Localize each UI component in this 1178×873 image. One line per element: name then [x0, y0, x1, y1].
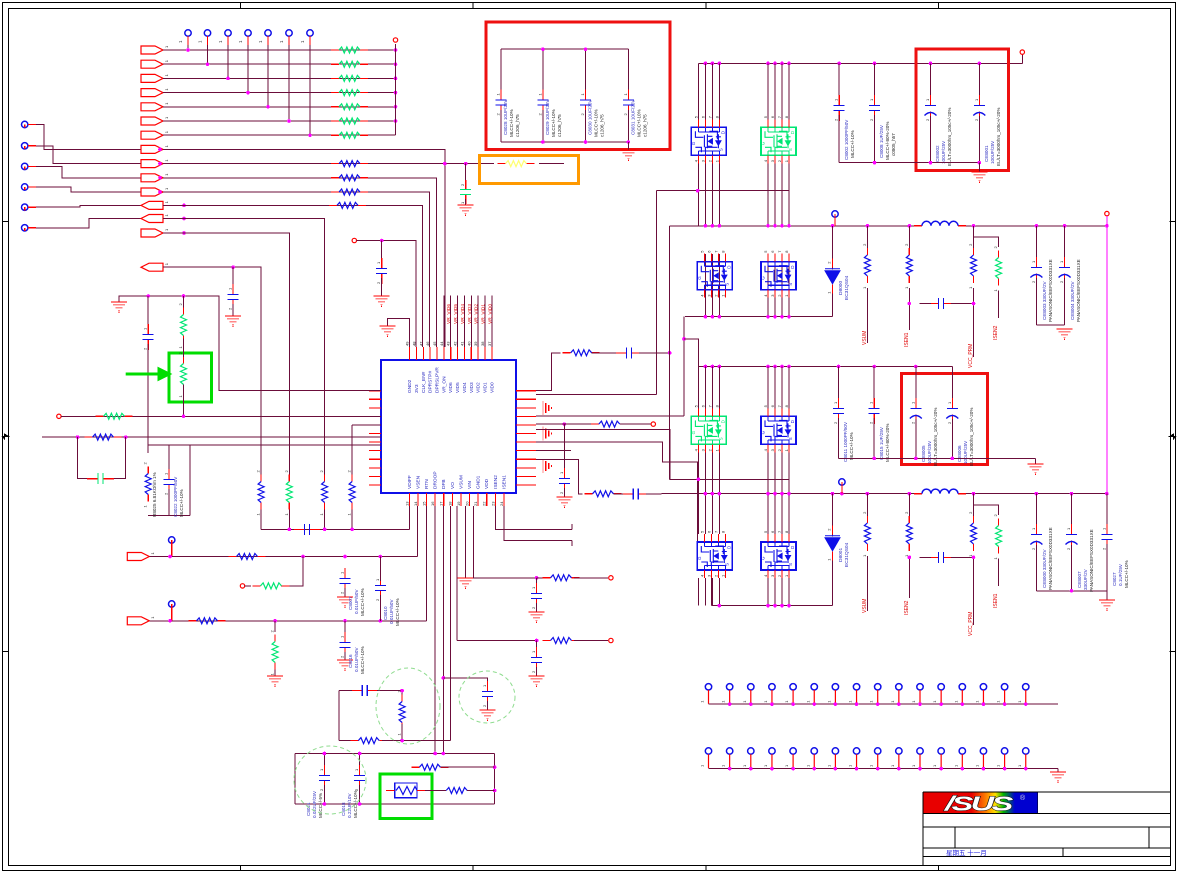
capacitor C ISEN p2 [928, 552, 954, 563]
bus VCORE magenta [1106, 216, 1108, 494]
svg-text:EC31QS04: EC31QS04 [844, 275, 850, 300]
wire C8011 b [838, 418, 840, 458]
junction mlcc bot [873, 161, 933, 165]
ground C8007 [337, 597, 353, 608]
junction RCp1 [668, 351, 672, 355]
capacitor C8016 [340, 632, 351, 658]
terminal J-top3 [218, 30, 231, 45]
svg-text:S: S [788, 283, 793, 286]
ground connector row2 [1050, 772, 1066, 783]
junction capbank top [541, 47, 587, 51]
svg-text:S: S [724, 563, 729, 566]
svg-text:MLCC+/-80%-20%: MLCC+/-80%-20% [885, 122, 890, 160]
stem C8018b [359, 785, 361, 804]
connector pin row2-13 [953, 748, 965, 768]
port arrow row3 [141, 74, 163, 82]
connector pin row1-3 [742, 684, 754, 704]
wire CE8005 a [915, 367, 917, 404]
svg-text:MLCC+/-10%: MLCC+/-10% [551, 109, 556, 137]
terminal left4 [22, 184, 28, 190]
junction row14 [182, 231, 186, 235]
wire C8031 stem b [627, 110, 629, 142]
resistor R row11 [331, 189, 368, 195]
svg-text:C8027: C8027 [1112, 572, 1117, 586]
wire term4 drop [247, 45, 249, 93]
svg-text:DPRSTP#: DPRSTP# [428, 371, 434, 393]
port arrow row12 [141, 201, 163, 209]
svg-text:CE8007: CE8007 [1077, 571, 1082, 588]
svg-text:CE8002: CE8002 [935, 145, 940, 162]
junction row11 [158, 190, 162, 194]
red highlight box 4 [901, 373, 987, 464]
junction p2 outcaps [1070, 589, 1074, 593]
wire capbank gnd stem [627, 142, 629, 150]
resistor R vert x352.1 [347, 470, 356, 516]
ground capbank [620, 150, 636, 161]
wire VO vert [669, 226, 671, 479]
wire ISEN cap right [951, 303, 974, 305]
stem C dashed [486, 701, 488, 710]
wire CE8003 b [1035, 278, 1037, 325]
svg-text:S: S [718, 148, 723, 151]
svg-text:MLCC+/-10%: MLCC+/-10% [850, 130, 855, 158]
capacitor green C row9 [460, 180, 471, 204]
svg-text:C8018: C8018 [341, 802, 346, 816]
resistor R row9 [331, 161, 368, 167]
wire C8002 a [838, 63, 840, 100]
connector pin row2-5 [784, 748, 796, 768]
svg-text:PANASONIC/EEFSX0D331XE: PANASONIC/EEFSX0D331XE [1048, 259, 1053, 322]
wire colB p2 mid [781, 452, 783, 534]
svg-text:VID0: VID0 [489, 382, 495, 393]
wire DFB bus [261, 528, 409, 530]
svg-text:C8011 1000PF/50V: C8011 1000PF/50V [843, 421, 848, 462]
resistor R above fuse [411, 764, 448, 770]
transistor Q high-side A [691, 115, 727, 163]
wire pin13 drop [408, 506, 410, 529]
terminal left6 [22, 225, 28, 231]
wire capbank top [501, 48, 629, 50]
wire C8027 b [1106, 544, 1108, 591]
capacitor C8010 [375, 575, 386, 601]
wire C8008 a [874, 63, 876, 100]
resistor R VSEN [229, 554, 266, 560]
resistor R8025 [143, 462, 152, 508]
wire colA p1 low2 [711, 254, 713, 317]
svg-text:VID1: VID1 [482, 382, 488, 393]
wire phase1 VIN bus [698, 62, 1022, 64]
resistor pack R row7 [331, 132, 368, 138]
wire conn row2 [709, 768, 1058, 770]
wire VSUM1 b [866, 288, 868, 343]
capacitor C8022 [164, 469, 175, 495]
connector pin row1-11 [911, 684, 923, 704]
wire C8011 a [838, 367, 840, 404]
wire VR_ON gnd stem [232, 304, 234, 316]
title block outline [923, 792, 1170, 866]
junction conn row1 [728, 702, 1028, 706]
connector pin row1-10 [890, 684, 902, 704]
resistor R row12 [329, 202, 366, 208]
junction dots row5 [266, 105, 397, 109]
wire phase2 VIN bus [698, 366, 952, 368]
wire colB p1 top [781, 63, 783, 119]
wire pin5R tail [620, 423, 651, 425]
svg-text:C8015 1UF/25V: C8015 1UF/25V [879, 426, 884, 460]
transistor Q2 low-side A [697, 530, 733, 578]
red stub left2 [28, 145, 36, 147]
terminal RTN [169, 601, 175, 607]
svg-text:C8007: C8007 [348, 596, 353, 610]
terminal VCORE1 [832, 211, 838, 217]
wire C8028 stem b [500, 110, 502, 142]
wire pin9R [536, 459, 583, 494]
svg-text:24: 24 [499, 501, 504, 506]
svg-text:C8022 1000PF/50V: C8022 1000PF/50V [173, 476, 178, 517]
capacitor C8015 [869, 398, 880, 424]
wire p2 out bot bus [1036, 590, 1107, 592]
junction row8 [158, 148, 162, 152]
junction lowbus2 [718, 604, 791, 608]
svg-text:VIN: VIN [467, 480, 473, 489]
wire RCp2 mid [614, 493, 626, 495]
wire term7 drop [309, 45, 311, 135]
svg-text:16: 16 [430, 501, 435, 506]
svg-text:46: 46 [425, 341, 430, 346]
red stub left6 [28, 227, 36, 229]
transistor Q low-side B [761, 250, 797, 298]
wire p2 mlcc bot bus [839, 457, 1036, 459]
open terminal VSEN br [240, 584, 244, 588]
svg-text:VR_VID2: VR_VID2 [474, 304, 480, 324]
wire colB p1 mid [788, 163, 790, 226]
svg-text:17: 17 [439, 501, 444, 506]
wire C8028 stem a [500, 49, 502, 95]
svg-text:MLCC+/-80%-20%: MLCC+/-80%-20% [885, 424, 890, 462]
resistor pack R row4 [331, 90, 368, 96]
svg-text:G: G [761, 556, 766, 560]
stem C8007 [344, 588, 346, 597]
junction dots row6 [287, 119, 397, 123]
resistor R right of fuse [438, 788, 475, 794]
wire VCCPRM p1 b [973, 288, 975, 357]
terminal left5 [22, 204, 28, 210]
red stub left3 [28, 165, 36, 167]
resistor R RC2 [543, 638, 580, 644]
junction dots RTN [168, 619, 382, 623]
dashed circle C [459, 671, 515, 723]
capacitor CE8000 [1030, 524, 1042, 550]
svg-text:CE8006: CE8006 [957, 445, 962, 462]
junction VCCPRM cap [972, 302, 976, 306]
U8000 top pin names [407, 367, 495, 393]
svg-text:49: 49 [405, 341, 410, 346]
wire VIN bus to oterm [1021, 54, 1023, 63]
stub RTN [171, 607, 173, 621]
svg-text:GND1: GND1 [476, 475, 482, 489]
port arrow row11 [141, 188, 163, 196]
wire row7 [163, 134, 396, 136]
wire CE8006 a [951, 367, 953, 404]
dashed circle C8021 [294, 746, 366, 814]
wire colA p2 mid [718, 452, 720, 534]
wire VSEN row [149, 556, 417, 558]
wire colB p2 top [788, 367, 790, 409]
wire colB p2 low [788, 578, 790, 606]
capacitor C RC1 [531, 583, 542, 609]
svg-text:DROOP: DROOP [433, 471, 439, 489]
terminal J-top1 [178, 30, 191, 45]
wire ISEN2 p1 b [998, 291, 1000, 319]
resistor R green RTN [270, 630, 279, 676]
resistor R rowA [96, 413, 133, 419]
wire RC2 tail [574, 640, 608, 642]
svg-text:EL/LT=3000hrs_105c+/-20%: EL/LT=3000hrs_105c+/-20% [947, 108, 952, 166]
dashed circle comp [376, 668, 440, 744]
open terminal DPRSTP [352, 238, 356, 242]
svg-text:MLCC+/-10%: MLCC+/-10% [1124, 560, 1129, 588]
wire C8029 stem b [542, 110, 544, 142]
resistor R ISEN2 p1 green [993, 246, 1002, 292]
svg-text:21: 21 [473, 501, 478, 506]
ground p2 VIN caps [1027, 464, 1043, 475]
svg-text:MLCC+/-10%: MLCC+/-10% [849, 432, 854, 460]
wire CE8004 b [1064, 278, 1066, 325]
wire colB p1 mid [781, 163, 783, 226]
terminal J-top4 [238, 30, 251, 45]
wire mlcc bot bus [839, 162, 979, 164]
wire CE8002 b [930, 116, 932, 163]
wire colB p2 low [781, 578, 783, 606]
wire jog to p2 bus [684, 339, 698, 367]
wire row12 [163, 205, 423, 347]
U8000 bottom pins [404, 493, 504, 506]
wire D8001 bot [832, 561, 834, 606]
resistor R ISEN2 p2 [904, 511, 913, 557]
svg-text:MLCC+/-10%: MLCC+/-10% [353, 790, 358, 818]
capacitor C RC p1 [616, 347, 642, 358]
wire colB p2 mid [774, 452, 776, 534]
svg-text:ISEN2: ISEN2 [493, 475, 499, 489]
svg-text:47: 47 [418, 341, 423, 346]
wire D8000 bot [832, 294, 834, 317]
wire colA p1 mid [704, 163, 706, 226]
wire lowbus1 left drop [683, 317, 685, 416]
svg-text:13: 13 [404, 501, 409, 506]
ASUS logo bar [924, 793, 1038, 815]
wire C8022 stem2 [168, 489, 170, 516]
wire pin17 drop [442, 506, 444, 754]
wire pin5R [536, 423, 599, 425]
wire CE8002 a [930, 63, 932, 100]
port arrow RTN [127, 617, 149, 625]
capacitor C RC p2 [623, 488, 649, 499]
capacitor C DPRSTP [376, 258, 387, 284]
svg-text:GND2: GND2 [407, 379, 413, 393]
resistor pack R row2 [331, 61, 368, 67]
wire C-left drop [147, 296, 149, 330]
wire term3 drop [227, 45, 229, 78]
wire ISEN cap left [919, 303, 931, 305]
svg-text:MLCC+/-10%: MLCC+/-10% [594, 109, 599, 137]
stem C8021a [323, 754, 325, 772]
wire colB p1 mid [767, 163, 769, 226]
wire ISEN2 p1 top [974, 237, 999, 247]
junction lowbus1 [704, 315, 791, 319]
wire C8030 stem b [585, 110, 587, 142]
svg-text:VSUM: VSUM [458, 475, 464, 489]
connector pin row1-5 [784, 684, 796, 704]
wire C8031 stem a [627, 49, 629, 95]
wire RCp1 mid [592, 352, 619, 354]
wire RCp2 tail [646, 493, 662, 495]
junction dots row3 [226, 77, 397, 81]
svg-text:CLK_EN#: CLK_EN# [421, 371, 427, 393]
wire C8002 b [838, 115, 840, 163]
stub VCORE2 [841, 485, 843, 493]
port arrow row10 [141, 174, 163, 182]
junction mlcc bot2 [978, 161, 982, 165]
wire colB p2 top [774, 367, 776, 409]
terminal J-top6 [279, 30, 292, 45]
svg-text:S: S [724, 283, 729, 286]
wire ISEN2 cap r [951, 556, 974, 558]
red highlight box 1 [486, 22, 670, 150]
junction conn row2 [728, 767, 1028, 771]
capacitor C8030 [580, 90, 591, 116]
svg-text:c0805_h57: c0805_h57 [891, 133, 896, 156]
port arrow row6 [141, 117, 163, 125]
svg-text:VID6: VID6 [448, 382, 454, 393]
capacitor C8031 [623, 90, 634, 116]
wire colA p1 top [711, 63, 713, 119]
wire VSUM2 [866, 494, 868, 516]
svg-text:0.01UF/50V: 0.01UF/50V [354, 647, 359, 672]
connector pin row1-14 [974, 684, 986, 704]
connector pin row1-2 [721, 684, 733, 704]
svg-text:R8025 6.81KOhm 1%: R8025 6.81KOhm 1% [152, 472, 157, 517]
junction row9 [158, 162, 162, 166]
wire D8001 top [832, 494, 834, 537]
capacitor C ISEN p1 [928, 298, 954, 309]
wire colA p2 low [697, 578, 699, 606]
svg-text:CE8000 330UF/2V: CE8000 330UF/2V [1042, 549, 1047, 588]
resistor R comp [397, 690, 406, 736]
connector pin row2-4 [763, 748, 775, 768]
transistor Q2 high-side A [691, 404, 727, 452]
junction dots row1 [186, 48, 397, 52]
svg-text:/SUS: /SUS [944, 793, 1014, 815]
wire phase1 rail a [670, 225, 914, 227]
svg-text:42: 42 [453, 341, 458, 346]
svg-text:G: G [691, 141, 696, 145]
red stub left4 [28, 186, 36, 188]
resistor R8006 yellow [498, 161, 535, 167]
svg-text:14: 14 [413, 501, 418, 506]
wire colA p2 top [718, 367, 720, 409]
resistor R comp2 [350, 738, 387, 744]
capacitor C8018 [354, 765, 365, 791]
svg-text:VSEN: VSEN [415, 475, 421, 489]
inductor L8001 [914, 489, 966, 494]
svg-text:VDD: VDD [484, 478, 490, 489]
svg-text:MLCC+/-5%: MLCC+/-5% [318, 793, 323, 818]
ground left bus [111, 302, 127, 313]
wire gate1 vert [656, 191, 658, 395]
open terminal top of bus [393, 38, 397, 42]
wire VCCPRM p1 [973, 226, 975, 248]
resistor pack R row6 [331, 118, 368, 124]
resistor R RC p1 [563, 350, 600, 356]
wire rowB bypass [78, 437, 87, 479]
svg-text:G: G [691, 430, 696, 434]
wire row9 gnd stem [465, 199, 467, 205]
junction row13 [182, 217, 186, 221]
junction pin5R [563, 422, 567, 426]
terminal J-top5 [258, 30, 271, 45]
diode D8000 [825, 259, 840, 294]
wire RTN to pin15 [426, 506, 428, 621]
svg-text:41: 41 [459, 341, 464, 346]
wire vert x352.1 b [351, 510, 353, 530]
wire C8027 a [1106, 494, 1108, 530]
comp net bottom2 [382, 740, 451, 742]
capacitor C8008 [869, 95, 880, 121]
connector pin row1-12 [932, 684, 944, 704]
wire pin16 drop [434, 506, 436, 754]
wire left3 elbow [36, 166, 160, 177]
wire pin24 end [571, 541, 573, 546]
wire colA p2 low [718, 578, 720, 606]
wire row5 [163, 106, 396, 108]
svg-text:MLCC+/-10%: MLCC+/-10% [636, 109, 641, 137]
svg-text:VR_VID0: VR_VID0 [487, 304, 493, 324]
wire colB p1 top [767, 63, 769, 119]
junction dots DFB bus [288, 528, 354, 532]
resistor R pin5R [591, 421, 628, 427]
wire pin23 [495, 506, 572, 529]
wire rowB bypass2 [114, 437, 126, 479]
ground phase2 caps [1099, 600, 1115, 611]
svg-text:C8031 10UF/25V: C8031 10UF/25V [630, 99, 635, 135]
svg-text:c1206_h75: c1206_h75 [557, 114, 562, 137]
wire colB p1 low [788, 254, 790, 317]
capacitor C dashed [482, 681, 493, 707]
junction row10 [158, 176, 162, 180]
stem C8018a [359, 754, 361, 772]
left center arrow mark [3, 434, 9, 439]
stub VSEN [171, 543, 173, 556]
capacitor CE8005 [910, 398, 922, 424]
svg-text:G: G [697, 276, 702, 280]
fuse PR8000 [386, 783, 425, 798]
svg-text:DFB: DFB [441, 479, 447, 489]
svg-text:G: G [761, 141, 766, 145]
wire CE8003 a [1035, 226, 1037, 263]
junction DPRSTP [380, 239, 384, 243]
green highlight box fuse [380, 774, 432, 819]
capacitor C8027 [1101, 524, 1112, 550]
svg-text:100UF/25V: 100UF/25V [927, 440, 932, 464]
resistor R row10 [331, 175, 368, 181]
resistor pack R row5 [331, 104, 368, 110]
junction capbank bot [541, 140, 630, 144]
svg-text:VSUM: VSUM [862, 599, 868, 613]
ground side pin3R [543, 401, 551, 415]
comp net top2 [377, 690, 402, 692]
resistor pack R row3 [331, 75, 368, 81]
wire pin8R [536, 450, 571, 452]
